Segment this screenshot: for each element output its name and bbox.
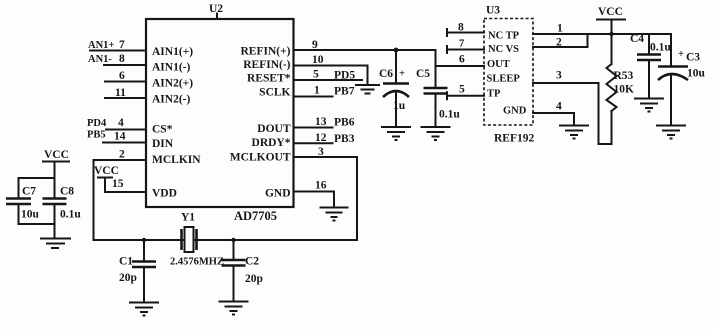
U2 left pin labels <box>152 46 201 200</box>
svg-text:AN1-: AN1- <box>88 54 112 65</box>
svg-text:Y1: Y1 <box>181 212 195 224</box>
svg-text:0.1u: 0.1u <box>60 209 81 221</box>
svg-text:SCLK: SCLK <box>259 87 290 99</box>
svg-text:REFIN(-): REFIN(-) <box>243 59 290 71</box>
svg-text:+: + <box>399 69 405 80</box>
wire U2 pin 7 AIN1(+) <box>90 39 146 51</box>
svg-text:U3: U3 <box>486 5 500 17</box>
IC U2 AD7705 body <box>146 3 294 223</box>
ground at C4 <box>635 99 663 112</box>
svg-text:8: 8 <box>458 22 464 34</box>
svg-text:AD7705: AD7705 <box>234 209 277 223</box>
svg-text:3: 3 <box>556 70 562 82</box>
wire U2 pin 3 MCLKOUT down to crystal rail <box>294 146 358 240</box>
wire U2 pin 1 SCLK to PB7 <box>294 85 355 98</box>
svg-text:AIN1(+): AIN1(+) <box>152 46 193 58</box>
wire U2 pin 8 AIN1(-) <box>104 53 146 65</box>
svg-text:1u: 1u <box>393 100 406 112</box>
svg-text:DRDY*: DRDY* <box>252 137 291 149</box>
svg-text:4: 4 <box>556 101 562 113</box>
U2 right pin labels <box>230 46 291 200</box>
svg-text:20p: 20p <box>119 272 137 284</box>
wire U3 pin 3 SLEEP to R53 bottom <box>533 70 612 145</box>
wire U2 pin 16 GND <box>294 180 335 207</box>
capacitor C6 1u (polarized) <box>379 50 409 126</box>
wire U3 pin 7 NC stub <box>447 39 484 54</box>
junction C1 tap <box>142 238 146 242</box>
svg-text:7: 7 <box>119 39 125 51</box>
wire U2 pin 4 CS* <box>106 117 146 130</box>
capacitor C7 10u <box>6 178 40 224</box>
wire U3 pin 5 TP stub <box>447 84 484 100</box>
svg-text:6: 6 <box>459 54 465 66</box>
svg-text:4: 4 <box>118 117 124 129</box>
svg-text:C2: C2 <box>245 256 259 268</box>
svg-text:7: 7 <box>459 39 464 50</box>
svg-text:OUT: OUT <box>487 59 510 70</box>
svg-text:R53: R53 <box>614 70 634 82</box>
ground at C6 <box>382 127 410 140</box>
svg-text:CS*: CS* <box>152 124 173 136</box>
svg-text:TP: TP <box>487 89 501 100</box>
ground at U2 pin 16 <box>321 208 348 221</box>
wire REF192 OUT pin 6 to reference node <box>436 54 485 67</box>
svg-text:DIN: DIN <box>152 138 174 150</box>
svg-text:C3: C3 <box>686 52 700 64</box>
svg-text:C7: C7 <box>22 186 36 198</box>
svg-text:16: 16 <box>315 180 327 192</box>
svg-text:VCC: VCC <box>44 149 69 161</box>
junction C2 tap <box>231 238 235 242</box>
svg-text:10K: 10K <box>614 84 635 96</box>
svg-text:SLEEP: SLEEP <box>487 74 521 85</box>
svg-text:1: 1 <box>557 23 563 35</box>
wire U2 pin 12 DRDY* to PB3 <box>294 132 355 145</box>
svg-text:AIN2(-): AIN2(-) <box>152 94 190 106</box>
wire VCC rail right <box>588 33 672 35</box>
wire U2 pin 5 RESET* to PD5 <box>294 69 363 82</box>
svg-text:C1: C1 <box>119 256 133 268</box>
svg-text:2: 2 <box>556 37 562 49</box>
svg-text:NC VS: NC VS <box>488 44 519 55</box>
svg-text:PD5: PD5 <box>334 70 355 82</box>
svg-text:2: 2 <box>119 149 125 161</box>
svg-text:+: + <box>678 49 684 60</box>
svg-text:5: 5 <box>313 69 319 81</box>
svg-text:20p: 20p <box>245 273 263 285</box>
junction at C6 tap on REFIN(+) wire <box>394 48 399 53</box>
wire U2 pin 2 MCLKIN down to crystal rail <box>94 149 147 241</box>
capacitor C4 0.1u <box>630 33 671 98</box>
svg-text:PB7: PB7 <box>334 86 355 98</box>
svg-text:10u: 10u <box>687 68 706 80</box>
wire U3 pin 2 VS to VCC rail <box>533 34 588 49</box>
svg-text:9: 9 <box>312 39 318 51</box>
svg-text:15: 15 <box>112 178 124 190</box>
wire crystal rail MCLKIN-MCLKOUT <box>94 239 358 241</box>
ground at C5 <box>422 127 450 140</box>
svg-text:REF192: REF192 <box>494 133 535 145</box>
ground at C2 <box>220 302 248 315</box>
svg-text:5: 5 <box>459 84 465 96</box>
resistor R53 10K <box>607 34 635 144</box>
wire reference node vertical to C5 <box>435 50 437 87</box>
svg-text:2.4576MHZ: 2.4576MHZ <box>170 257 224 268</box>
ground at REFIN(-) <box>356 85 379 94</box>
wire U2 pin 13 DOUT to PB6 <box>294 116 355 129</box>
crystal Y1 2.4576MHZ <box>170 212 224 268</box>
U3 pin labels <box>487 31 527 117</box>
ground at C7/C8 <box>41 239 70 249</box>
svg-text:10u: 10u <box>21 209 40 221</box>
svg-text:MCLKIN: MCLKIN <box>152 154 201 166</box>
power VCC right <box>597 6 625 34</box>
wire U2 pin 10 REFIN(-) to ground <box>294 54 368 84</box>
capacitor C8 0.1u <box>43 186 82 238</box>
svg-text:MCLKOUT: MCLKOUT <box>230 152 291 164</box>
power VCC left <box>43 149 69 198</box>
wire U2 pin 11 AIN2(-) <box>105 87 146 99</box>
svg-text:C8: C8 <box>60 186 74 198</box>
capacitor C5 0.1u <box>416 68 460 126</box>
svg-text:PD4: PD4 <box>87 118 107 129</box>
wire U2 pin 6 AIN2(+) <box>105 70 146 82</box>
svg-text:PB3: PB3 <box>334 133 355 145</box>
capacitor C2 20p <box>222 240 263 301</box>
svg-text:NC TP: NC TP <box>488 31 520 42</box>
ground at C1 <box>130 303 158 316</box>
IC U3 REF192 body (dashed) <box>484 5 535 145</box>
svg-text:GND: GND <box>265 188 291 200</box>
svg-text:14: 14 <box>114 131 126 143</box>
svg-text:RESET*: RESET* <box>247 73 291 85</box>
svg-text:VDD: VDD <box>152 188 177 200</box>
svg-text:GND: GND <box>503 106 527 117</box>
svg-text:13: 13 <box>315 116 327 128</box>
svg-text:VCC: VCC <box>94 165 119 177</box>
svg-text:PB6: PB6 <box>334 117 355 129</box>
wire U3 pin 4 GND <box>533 101 574 125</box>
wire C7/C8 bottom rail <box>19 223 55 225</box>
svg-text:VCC: VCC <box>598 6 623 18</box>
capacitor C3 10u (polarized) <box>658 34 706 125</box>
svg-text:0.1u: 0.1u <box>650 42 671 54</box>
svg-text:AN1+: AN1+ <box>88 40 114 51</box>
svg-text:12: 12 <box>315 132 327 144</box>
svg-text:0.1u: 0.1u <box>439 109 460 121</box>
svg-text:REFIN(+): REFIN(+) <box>241 46 291 58</box>
wire U2 pin 15 VDD <box>105 178 146 192</box>
svg-text:3: 3 <box>318 146 324 158</box>
wire U3 pin 1 to VCC rail <box>533 23 588 35</box>
ground at U3 pin 4 <box>560 126 588 139</box>
wire U3 pin 8 NC stub <box>447 22 484 37</box>
svg-text:1: 1 <box>314 85 320 97</box>
svg-text:PB5: PB5 <box>87 130 106 141</box>
svg-text:10: 10 <box>312 54 324 66</box>
svg-text:C4: C4 <box>630 33 644 45</box>
svg-text:11: 11 <box>115 87 126 99</box>
power VCC flag at VDD <box>94 165 119 192</box>
svg-text:C6: C6 <box>379 68 393 80</box>
wire U2 pin 14 DIN <box>103 131 146 143</box>
ground at C3 <box>657 126 685 139</box>
svg-text:C5: C5 <box>416 68 430 80</box>
svg-text:AIN1(-): AIN1(-) <box>152 62 190 74</box>
capacitor C1 20p <box>119 240 156 302</box>
junction VCC rail / R53 <box>609 32 613 36</box>
svg-text:6: 6 <box>119 70 125 82</box>
wire C7/C8 top rail <box>19 177 55 179</box>
svg-text:DOUT: DOUT <box>257 123 291 135</box>
svg-text:8: 8 <box>119 53 125 65</box>
wire U2 pin 9 REFIN(+) to reference node <box>294 39 436 51</box>
svg-text:AIN2(+): AIN2(+) <box>152 78 193 90</box>
